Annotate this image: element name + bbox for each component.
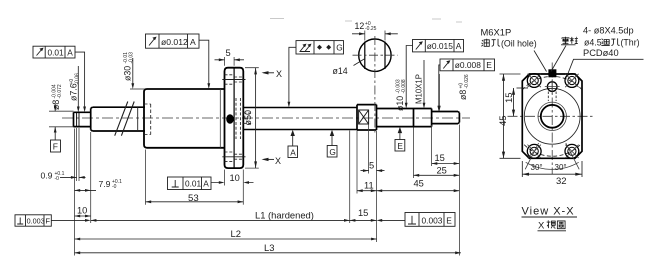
svg-text:A: A [190, 37, 196, 47]
dim 15 end view [514, 88, 529, 116]
svg-text:0.9: 0.9 [41, 171, 53, 181]
label ø7.6 tolerance rotated [69, 73, 81, 101]
svg-text:X: X [276, 69, 282, 79]
label ø8 tolerance rotated [51, 84, 63, 110]
detail centerlines [374, 36, 376, 133]
svg-text:F: F [53, 142, 58, 152]
svg-text:0.003: 0.003 [27, 217, 45, 226]
label ø8 right tolerance rotated [458, 74, 470, 100]
flange lower bolt hole hidden [225, 152, 244, 161]
svg-text:10: 10 [230, 173, 240, 183]
svg-text:G: G [336, 43, 342, 53]
dim 15 right [432, 163, 460, 165]
flange oil passage hidden [236, 98, 240, 139]
svg-text:15: 15 [358, 208, 368, 218]
svg-text:-0.06: -0.06 [74, 73, 80, 85]
dim 5 flange top [215, 59, 245, 61]
svg-text:11: 11 [364, 181, 374, 191]
svg-text:10: 10 [77, 206, 87, 216]
leader M10 [423, 60, 425, 103]
svg-text:L1 (hardened): L1 (hardened) [255, 210, 314, 221]
end view PCD ø40 dashed circle [512, 76, 592, 156]
bolt hole top-right [565, 74, 579, 88]
svg-text:0.003: 0.003 [422, 216, 443, 226]
end view center bore [541, 105, 564, 128]
oil hole plug black square [548, 69, 556, 77]
dim 7.9 [75, 189, 97, 191]
svg-text:45: 45 [498, 115, 509, 126]
svg-text:0.01: 0.01 [48, 48, 65, 58]
nut chamfer line [219, 89, 221, 148]
section arrow X bottom [264, 158, 275, 160]
bolt hole bottom-right [565, 144, 579, 158]
datum E under ø10 [398, 127, 402, 133]
shaft section 2 [91, 107, 145, 131]
svg-text:5: 5 [369, 160, 374, 170]
svg-text:M10X1P: M10X1P [415, 74, 424, 104]
label plug [562, 37, 578, 44]
dim L3 [75, 252, 461, 254]
FCF 0.003E leader [382, 219, 405, 221]
datum G under screw [330, 130, 334, 136]
svg-text:7.9: 7.9 [99, 179, 111, 189]
dim L1 [91, 219, 350, 221]
datum F extension lines [49, 111, 74, 127]
FCF perpendicular 0.003 F [15, 215, 51, 226]
svg-text:15: 15 [504, 92, 515, 103]
flat mark box [359, 110, 369, 124]
svg-text:ø0.015: ø0.015 [427, 41, 453, 51]
svg-text:ø0.012: ø0.012 [161, 37, 188, 47]
FCF total runout G [296, 41, 344, 54]
dim 45 end view [500, 74, 521, 158]
oil hole M6 [545, 79, 560, 101]
FCF 0.01A leader / dim 10 flange [211, 182, 254, 184]
bolt hole bottom-left [527, 144, 541, 158]
svg-text:A: A [290, 147, 296, 157]
svg-text:A: A [203, 179, 209, 189]
svg-text:E: E [397, 141, 403, 151]
svg-text:32: 32 [556, 176, 567, 187]
nut hidden bore [144, 104, 151, 135]
svg-text:-0: -0 [55, 176, 60, 182]
dim ø50 flange [255, 68, 257, 168]
flange bolt hole centerlines [222, 80, 245, 157]
svg-text:4- ø8X4.5dp: 4- ø8X4.5dp [583, 26, 634, 36]
svg-text:A: A [456, 41, 462, 51]
dim L2 [75, 238, 377, 240]
label ø30 tolerance rotated [123, 52, 135, 81]
svg-text:E: E [446, 216, 452, 226]
dim 15 after L1 [350, 219, 377, 221]
svg-text:ø7.6: ø7.6 [69, 83, 79, 101]
svg-text:-0.072: -0.072 [57, 84, 63, 98]
thread runout line [137, 107, 139, 131]
svg-text:L2: L2 [231, 228, 241, 239]
end view bore chamfer circle [538, 102, 566, 130]
svg-text:PCDø40: PCDø40 [583, 48, 619, 58]
dim 0.9 groove [60, 176, 86, 178]
flange [225, 68, 244, 168]
30 degree arc [526, 162, 579, 169]
svg-text:-0: -0 [112, 184, 117, 190]
label M10X1P rotated [415, 74, 424, 104]
svg-text:ø50: ø50 [243, 110, 253, 126]
FCF leader to stub [75, 52, 85, 107]
FCF leader to cylinder [199, 40, 209, 83]
flange upper bolt hole hidden [225, 75, 244, 84]
svg-text:F: F [45, 217, 50, 226]
dim 12 over detail [352, 33, 398, 35]
svg-text:(Oil hole): (Oil hole) [501, 39, 537, 49]
screw root hidden [243, 113, 253, 123]
svg-text:ø10: ø10 [395, 96, 405, 111]
scan noise marks [270, 19, 462, 23]
svg-text:ø4.5: ø4.5 [584, 38, 602, 48]
svg-text:E: E [486, 60, 492, 70]
svg-text:View X-X: View X-X [522, 206, 575, 218]
dim 10 stub [75, 215, 91, 217]
label ø10 tolerance rotated [395, 79, 407, 111]
FCF circular runout ø0.008 E [440, 59, 495, 71]
svg-text:L3: L3 [264, 242, 274, 253]
FCF leader to screw [289, 47, 296, 102]
svg-text:X: X [538, 221, 545, 232]
leader ø30 [130, 58, 145, 89]
FCF ø0.008 leader [439, 65, 440, 106]
ø10 and M10 sections [377, 109, 432, 127]
screw shaft [243, 108, 357, 130]
FCF 0.003F leader [51, 219, 85, 221]
svg-text:M6X1P: M6X1P [481, 27, 512, 38]
leader ø8 right [438, 74, 440, 106]
extension lines left end [75, 31, 460, 256]
leader ø7.6 [77, 66, 79, 107]
detail circle ø14 with flats [359, 39, 391, 71]
svg-text:ø14: ø14 [333, 66, 348, 76]
datum A under screw [291, 130, 295, 136]
svg-text:-0.026: -0.026 [464, 74, 470, 88]
svg-text:30°: 30° [531, 163, 543, 172]
nut body cylinder ø30 [144, 89, 225, 148]
wrench flat section [357, 105, 377, 130]
section arrow X top [264, 72, 275, 74]
FCF perpendicular 0.01 A mid [168, 177, 212, 190]
break lines [115, 102, 135, 136]
dim 53 [146, 201, 244, 203]
dim 5 wrench flat [361, 170, 385, 172]
svg-text:5: 5 [226, 48, 231, 58]
dim ø8 left vertical [54, 104, 56, 140]
dim 45 [377, 190, 460, 192]
leader oil hole [534, 51, 547, 72]
svg-text:53: 53 [188, 193, 199, 204]
svg-text:ø0.008: ø0.008 [455, 60, 481, 70]
leader PCD [567, 59, 644, 76]
svg-text:25: 25 [437, 166, 447, 176]
FCF ø0.015 leader [406, 46, 412, 104]
dim 32 [522, 161, 582, 177]
svg-text:45: 45 [414, 179, 424, 189]
oil hole dot [226, 114, 234, 123]
ø8 end journal [432, 112, 460, 124]
svg-text:15: 15 [435, 153, 445, 163]
end view body circle [524, 88, 580, 144]
FCF circular runout 0.01 A top-left [33, 46, 75, 58]
svg-text:-0.25: -0.25 [365, 26, 377, 32]
bolt hole top-left [527, 74, 541, 88]
svg-text:ø8: ø8 [51, 100, 61, 110]
svg-text:X: X [275, 156, 281, 166]
svg-text:30°: 30° [555, 163, 567, 172]
end view centerline vertical [551, 63, 553, 175]
svg-text:G: G [329, 147, 335, 157]
svg-text:ø8: ø8 [458, 90, 468, 100]
shaft left stub ø8 journal [74, 112, 91, 126]
svg-text:12: 12 [355, 21, 365, 31]
dim 25 [414, 174, 460, 176]
dim 11 [357, 190, 377, 192]
end view flange outline [522, 74, 582, 158]
datum F box [51, 140, 61, 152]
svg-text:0.01: 0.01 [185, 179, 202, 189]
FCF perpendicular 0.003 E [405, 213, 455, 227]
FCF circular runout ø0.012 A [146, 34, 200, 48]
svg-text:(Thr): (Thr) [621, 38, 640, 48]
svg-text:-0.03: -0.03 [128, 52, 134, 64]
wire main centerline [62, 117, 470, 119]
30 degree wedge lines [525, 143, 579, 169]
FCF circular runout ø0.015 A [413, 40, 464, 52]
svg-text:ø30: ø30 [123, 66, 133, 81]
end view centerline horizontal [508, 115, 595, 117]
svg-text:A: A [67, 48, 73, 58]
